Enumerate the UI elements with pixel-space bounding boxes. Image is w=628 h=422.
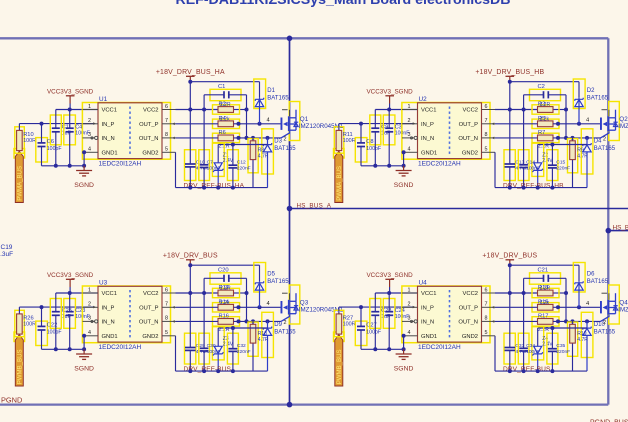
svg-text:SGND: SGND [74,182,94,189]
svg-text:3: 3 [408,316,411,322]
svg-text:2: 2 [284,320,287,326]
capacitor C6 100pF [36,124,62,166]
svg-text:100nF: 100nF [207,166,221,172]
wire OUT_N row B-LS [495,319,601,323]
svg-text:IN_N: IN_N [102,136,115,142]
capacitor C20 [204,267,246,293]
svg-text:2.2R: 2.2R [540,286,551,292]
resistor R4 2.2k [213,116,240,129]
capacitor C28 1uF [370,293,392,349]
junctions SGND rail A-HS [54,164,86,168]
svg-text:6: 6 [165,287,168,293]
svg-text:BAT165: BAT165 [587,95,609,101]
capacitor C8 100pF [355,124,381,166]
diode 1 BAT165 [254,79,289,124]
svg-text:2: 2 [408,118,411,124]
svg-text:R10: R10 [23,132,33,138]
diode 4 BAT165 [581,129,615,188]
ground SGND A-HS [74,150,94,189]
svg-text:IMZ120R045M1: IMZ120R045M1 [618,307,628,314]
svg-text:VCC3V3_SGND: VCC3V3_SGND [47,272,94,279]
wire VCC1 A-LS [56,292,98,294]
wire SGND rail A-HS [42,165,85,167]
wire VCC2 row A-HS [176,108,249,112]
svg-text:C35: C35 [556,343,565,349]
net label DRV_REF-BUS_HB [503,183,564,190]
resistor R14 2.2k [213,299,240,312]
svg-text:2: 2 [408,302,411,308]
svg-text:GND1: GND1 [421,334,437,340]
svg-text:2.4V: 2.4V [542,342,553,348]
capacitor C4 100nF [64,110,90,166]
pin numbers U1 [88,104,168,153]
wire HS_BUS_B stub [606,228,628,234]
junctions SGND rail B-LS [373,347,405,351]
wire VCC2 row B-LS [495,291,568,295]
svg-text:1EDC20I12AH: 1EDC20I12AH [99,344,142,351]
IC U2 1EDC20I12AH isolated gate driver [402,96,490,168]
svg-text:C14: C14 [526,160,535,166]
wire OUT_P row A-HS [176,122,282,126]
wire snubber branch A-LS [246,293,248,321]
pin names U1 [102,108,159,157]
wire snubber branch B-LS [565,293,567,321]
svg-text:VCC1: VCC1 [421,291,436,297]
svg-text:+18V_DRV_BUS_HA: +18V_DRV_BUS_HA [156,69,225,76]
junction mid/bottom [287,402,293,408]
junction mid/top [287,36,293,42]
wire phase-A mid bus [289,38,291,404]
svg-text:D2: D2 [587,88,595,94]
svg-text:C30: C30 [207,343,216,349]
svg-text:+18V_DRV_BUS: +18V_DRV_BUS [482,253,537,260]
svg-text:IN_N: IN_N [421,136,434,142]
svg-text:PWMB_BUS: PWMB_BUS [16,349,23,384]
svg-text:6: 6 [165,104,168,110]
svg-text:PWMB_BUS: PWMB_BUS [336,349,343,384]
svg-text:BAT165: BAT165 [274,329,296,335]
svg-text:2.4V: 2.4V [223,342,234,348]
svg-text:100nF: 100nF [526,166,540,172]
svg-text:7: 7 [165,118,168,124]
IC U1 1EDC20I12AH isolated gate driver [82,96,170,168]
svg-text:U2: U2 [419,96,428,103]
junction VCC1 A-LS [68,291,72,295]
svg-text:100nF: 100nF [207,349,221,355]
wire clamp node B-HS [538,143,587,163]
svg-text:U3: U3 [99,279,108,286]
power VCC3V3_SGND B-HS [366,89,413,110]
pins U3 [83,293,176,336]
svg-text:5: 5 [485,330,488,336]
svg-text:2.2R: 2.2R [220,102,231,108]
wire SGND rail A-LS [42,348,85,350]
svg-text:BAT165: BAT165 [274,146,296,152]
svg-text:HS_B: HS_B [613,224,628,231]
resistor R10 100R [15,124,36,154]
svg-text:OUT_P: OUT_P [459,305,478,311]
svg-text:8: 8 [485,316,488,322]
junction +18V B-HS [508,80,512,84]
svg-text:C7: C7 [207,160,214,166]
capacitor C32 220nF [227,328,250,371]
svg-text:C2: C2 [538,84,545,90]
power +18V_DRV_BUS_HB [475,69,544,82]
svg-text:HS_BUS_A: HS_BUS_A [297,202,332,209]
svg-text:100R: 100R [23,322,36,328]
IC U4 1EDC20I12AH isolated gate driver [402,279,490,351]
pins U4 [402,293,495,336]
svg-text:2: 2 [603,137,606,143]
capacitor C13 4.7uF [504,82,528,188]
port PWMA_BUS [334,149,345,203]
capacitor C22 100pF [36,307,62,349]
capacitor C23 100nF [64,293,90,349]
junctions SGND rail B-HS [373,164,405,168]
ground SGND B-HS [394,150,414,189]
capacitor C35 220nF [547,328,570,371]
svg-text:OUT_N: OUT_N [458,320,478,326]
svg-text:C32: C32 [237,343,246,349]
wire IN_P rail B-LS [339,306,414,308]
svg-text:VCC2: VCC2 [463,108,478,114]
port PWMA_BUS [14,149,25,203]
wire SGND rail B-LS [361,348,404,350]
net label PGND [1,396,22,405]
wire clamp node A-HS [218,143,267,163]
zener Z2 2.4V [532,143,553,187]
svg-text:7: 7 [485,118,488,124]
wire DRV_REF rail B-HS [495,152,587,189]
wire IN_P rail A-HS [19,123,94,125]
svg-text:5: 5 [165,147,168,153]
svg-text:2: 2 [88,302,91,308]
svg-text:OUT_N: OUT_N [139,320,159,326]
net label DRV_REF-BUS_HA [184,183,245,190]
diode 10 BAT165 [581,312,615,371]
svg-text:DRV_REF-BUS_HA: DRV_REF-BUS_HA [184,183,245,190]
svg-text:1: 1 [408,104,411,110]
wire VCC2 row B-HS [495,108,568,112]
svg-text:PGND: PGND [1,396,22,405]
resistor R8 4.7R [248,138,269,188]
svg-text:D3: D3 [274,139,282,145]
svg-text:7: 7 [485,302,488,308]
svg-text:GND1: GND1 [102,334,118,340]
port PWMB_BUS [14,332,25,386]
pin names U3 [102,291,159,340]
svg-text:GND1: GND1 [421,150,437,156]
capacitor C25 1uF [50,293,72,349]
wire OUT_N row A-LS [176,319,282,323]
svg-text:BAT165: BAT165 [594,146,616,152]
net label DRV_REF-BUS [503,366,551,373]
svg-text:C1: C1 [218,84,225,90]
svg-text:DRV_REF-BUS_HB: DRV_REF-BUS_HB [503,183,564,190]
power +18V_DRV_BUS [163,253,218,266]
junction IN_P rail A-LS [40,305,44,309]
svg-text:BAT165: BAT165 [267,279,289,285]
svg-text:REF-DAB11KIZSICSys_Main Board: REF-DAB11KIZSICSys_Main Board electronic… [175,0,510,8]
svg-text:4: 4 [88,330,91,336]
svg-text:2: 2 [88,118,91,124]
power +18V_DRV_BUS_HA [156,69,225,82]
svg-text:D1: D1 [267,88,275,94]
capacitor C33 4.7uF [504,265,528,371]
junction IN_P rail B-HS [359,122,363,126]
resistor R3 [532,102,559,115]
svg-text:VCC2: VCC2 [143,291,158,297]
wire SGND rail B-HS [361,165,404,167]
wire right bus [607,38,609,404]
power VCC3V3_SGND A-LS [47,272,94,293]
svg-text:OUT_N: OUT_N [458,136,478,142]
junction VCC1 A-HS [68,108,72,112]
wire VCC2 row A-LS [176,291,249,295]
svg-text:C21: C21 [538,267,549,273]
capacitor C1 [204,84,246,110]
svg-text:VCC3V3_SGND: VCC3V3_SGND [366,272,413,279]
resistor R13 [532,285,559,298]
svg-text:PWMA_BUS: PWMA_BUS [16,166,23,201]
resistor R2 [213,102,240,115]
svg-text:C20: C20 [218,267,229,273]
resistor R7 2.2R [532,130,559,149]
capacitor C24 100nF [383,293,409,349]
svg-text:8: 8 [485,132,488,138]
svg-text:3: 3 [408,132,411,138]
junction +18V A-LS [188,263,192,267]
port PWMB_BUS [334,332,345,386]
zener Z3 2.4V [212,327,233,371]
svg-text:GND2: GND2 [142,150,158,156]
svg-text:3: 3 [88,132,91,138]
svg-text:1EDC20I12AH: 1EDC20I12AH [418,344,461,351]
svg-text:D6: D6 [587,272,595,278]
svg-text:8: 8 [165,132,168,138]
svg-text:2.2k: 2.2k [540,117,550,123]
capacitor C29 4.7uF [185,265,209,371]
resistor R27 100R [334,307,355,337]
svg-text:100pF: 100pF [366,329,381,335]
capacitor C14 100nF [518,110,540,188]
wire clamp node A-LS [218,326,267,346]
wire OUT_P row A-LS [176,305,282,309]
svg-text:D5: D5 [267,272,275,278]
svg-text:100R: 100R [343,138,356,144]
svg-text:SGND: SGND [394,366,414,373]
svg-text:VCC2: VCC2 [463,291,478,297]
svg-text:C12: C12 [237,160,246,166]
svg-text:C15: C15 [556,160,565,166]
junction +18V A-HS [188,80,192,84]
pins U2 [402,110,495,153]
wire snubber branch B-HS [565,110,567,138]
svg-text:U4: U4 [419,279,428,286]
capacitor C9 1uF [370,110,390,166]
wire DC+ top bus [0,37,608,39]
capacitor C3 100nF [383,110,409,166]
pin numbers U2 [408,104,488,153]
resistor R15 2.2k [532,299,559,312]
net label clipped bottom right [590,420,628,422]
ground SGND B-LS [394,334,414,373]
svg-text:C19: C19 [1,244,13,251]
svg-text:2.2k: 2.2k [220,300,230,306]
svg-text:OUT_P: OUT_P [459,122,478,128]
svg-text:R6: R6 [219,130,226,136]
zener Z1 2.4V [212,143,233,187]
capacitor C27 100pF [355,307,381,349]
wire +18V feed to D1 [190,82,259,98]
power VCC3V3_SGND A-HS [47,89,94,110]
svg-text:VCC3V3_SGND: VCC3V3_SGND [47,89,94,96]
svg-text:GND2: GND2 [142,334,158,340]
transistor Q1 IMZ120R045M1 [267,102,344,143]
junction VCC1 B-HS [387,108,391,112]
diode 2 BAT165 [573,79,608,124]
svg-text:IN_P: IN_P [421,122,434,128]
svg-text:SGND: SGND [394,182,414,189]
svg-text:100pF: 100pF [47,329,62,335]
svg-text:100R: 100R [343,322,356,328]
svg-text:VCC1: VCC1 [102,108,117,114]
capacitor C30 100nF [199,293,221,371]
svg-text:2: 2 [284,137,287,143]
wire snubber branch A-HS [246,110,248,138]
svg-text:4: 4 [408,147,411,153]
wire DRV_REF rail B-LS [495,336,587,373]
svg-text:1: 1 [88,104,91,110]
svg-text:100nF: 100nF [526,349,540,355]
svg-text:4.7R: 4.7R [258,154,269,160]
wire IN_P rail A-LS [19,306,94,308]
capacitor C7 100nF [199,110,221,188]
svg-text:U1: U1 [99,96,108,103]
net label DRV_REF-BUS [184,366,232,373]
svg-text:SGND: SGND [74,366,94,373]
svg-text:IN_P: IN_P [102,305,115,311]
transistor Q3 IMZ120R045M1 [267,285,344,326]
svg-text:2.4V: 2.4V [223,158,234,164]
power +18V_DRV_BUS [482,253,537,266]
svg-text:+18V_DRV_BUS: +18V_DRV_BUS [163,253,218,260]
svg-text:220nF: 220nF [556,166,570,172]
svg-text:100R: 100R [23,138,36,144]
capacitor C2 [524,84,566,110]
svg-text:IN_N: IN_N [102,320,115,326]
svg-text:4: 4 [88,147,91,153]
svg-text:OUT_N: OUT_N [139,136,159,142]
svg-text:6: 6 [485,104,488,110]
svg-text:1EDC20I12AH: 1EDC20I12AH [99,160,142,167]
pin numbers U4 [408,287,488,336]
svg-text:6: 6 [485,287,488,293]
svg-text:IMZ120R045M1: IMZ120R045M1 [618,123,628,130]
sheet title [175,0,510,8]
svg-text:7: 7 [165,302,168,308]
wire IN_P rail B-HS [339,123,414,125]
IC U3 1EDC20I12AH isolated gate driver [82,279,170,351]
wire VCC1 A-HS [56,109,98,111]
net label HS_BUS_A [297,202,332,209]
capacitor C15 220nF [547,145,570,188]
transistor Q2 IMZ120R045M1 [586,102,628,143]
svg-text:2.2k: 2.2k [220,117,230,123]
junctions SGND rail A-LS [54,347,86,351]
svg-text:R17: R17 [538,314,548,320]
wire DRV_REF rail A-LS [176,336,268,373]
svg-text:VCC1: VCC1 [421,108,436,114]
wire VCC1 B-LS [375,292,417,294]
svg-text:BAT165: BAT165 [267,95,289,101]
diode 3 BAT165 [262,129,296,188]
junction +18V B-LS [508,263,512,267]
svg-text:VCC3V3_SGND: VCC3V3_SGND [366,89,413,96]
svg-text:1: 1 [408,287,411,293]
wire OUT_N row B-HS [495,136,601,140]
svg-text:100pF: 100pF [366,146,381,152]
svg-text:R26: R26 [23,315,33,321]
zener Z4 2.4V [532,327,553,371]
pin names U2 [421,108,478,157]
svg-text:C34: C34 [526,343,535,349]
resistor R5 2.2k [532,116,559,129]
wire OUT_P row B-HS [495,122,601,126]
pin names U4 [421,291,478,340]
resistor R12 [213,285,240,298]
svg-text:R16: R16 [219,314,229,320]
svg-text:100pF: 100pF [47,146,62,152]
svg-text:3.3uF: 3.3uF [0,251,13,258]
svg-text:R7: R7 [538,130,545,136]
svg-text:D4: D4 [594,139,602,145]
wire +18V feed to D6 [510,265,579,281]
wire +18V feed to D2 [510,82,579,98]
capacitor C11 1uF [50,110,71,166]
svg-text:R11: R11 [343,132,353,138]
svg-text:IN_P: IN_P [421,305,434,311]
junction IN_P rail B-LS [359,305,363,309]
resistor R9 4.7R [568,138,589,188]
svg-text:8: 8 [165,316,168,322]
svg-text:4: 4 [408,330,411,336]
wire HS_BUS_A [287,206,628,212]
svg-text:220nF: 220nF [237,349,251,355]
svg-text:D9: D9 [274,322,282,328]
svg-text:2.4V: 2.4V [542,158,553,164]
svg-text:5: 5 [485,147,488,153]
svg-text:R27: R27 [343,315,353,321]
resistor R16 2.2R [213,314,240,333]
diode 9 BAT165 [262,312,296,371]
svg-text:4.7R: 4.7R [577,154,588,160]
wire +18V feed to D5 [190,265,259,281]
pins U1 [83,110,176,153]
svg-text:1EDC20I12AH: 1EDC20I12AH [418,160,461,167]
resistor R6 2.2R [213,130,240,149]
svg-text:2.2R: 2.2R [220,286,231,292]
svg-text:3: 3 [88,316,91,322]
svg-text:VCC1: VCC1 [102,291,117,297]
svg-text:VCC2: VCC2 [143,108,158,114]
capacitor C10 4.7uF [185,82,209,188]
svg-text:IN_P: IN_P [102,122,115,128]
capacitor C12 220nF [227,145,250,188]
svg-text:BAT165: BAT165 [594,329,616,335]
svg-text:2.2R: 2.2R [540,102,551,108]
diode 5 BAT165 [254,263,289,308]
